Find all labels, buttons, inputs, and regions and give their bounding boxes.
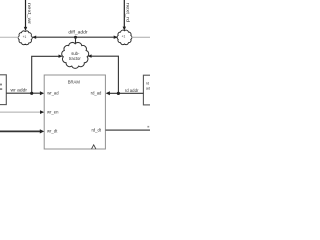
svg-text:BRAM: BRAM <box>68 80 81 85</box>
wire rd_dt output <box>105 126 150 130</box>
svg-text:rd: rd <box>146 81 149 85</box>
wire tap rd_addr to subtractor <box>87 54 118 93</box>
wire next_rd into right incrementer <box>123 0 131 31</box>
wire full flag stub left <box>0 36 19 38</box>
svg-text:wr_ad: wr_ad <box>47 91 59 96</box>
incrementer right +1 <box>117 30 132 45</box>
svg-text:ad: ad <box>146 86 150 90</box>
junction node on diff_addr <box>74 36 77 39</box>
svg-text:next_rd: next_rd <box>126 3 131 23</box>
svg-text:diff_addr: diff_addr <box>68 29 88 34</box>
svg-text:+1: +1 <box>122 35 126 39</box>
svg-text:wr_en: wr_en <box>47 109 59 114</box>
BRAM clock input triangle <box>92 145 96 149</box>
svg-text:tractor: tractor <box>69 56 81 61</box>
incrementer left +1 <box>18 31 32 45</box>
BRAM block <box>44 75 105 149</box>
wire empty flag stub right <box>131 36 150 38</box>
wire stem junction to subtractor <box>75 37 77 44</box>
register rd_addr (clipped at right edge) <box>143 75 155 105</box>
wire wr_en input <box>0 110 44 114</box>
wire rd_addr to BRAM <box>106 88 144 95</box>
svg-text:wr_dt: wr_dt <box>47 128 58 133</box>
wire tap wr_addr to subtractor <box>32 55 63 94</box>
svg-text:rd_ad: rd_ad <box>91 91 102 96</box>
subtractor cloud <box>62 42 89 68</box>
wire wr_addr to BRAM <box>6 87 44 95</box>
svg-text:rd addr: rd addr <box>125 88 139 93</box>
svg-text:+1: +1 <box>23 35 27 39</box>
svg-text:rd_dt: rd_dt <box>91 128 101 133</box>
wire diff_addr between incrementers <box>32 29 118 39</box>
junction node on rd_addr <box>117 92 120 95</box>
register wr_addr (clipped at left edge) <box>0 75 6 105</box>
wire next_wr into left incrementer <box>24 0 32 31</box>
junction node on wr_addr <box>30 92 33 95</box>
svg-text:wr addr: wr addr <box>11 87 28 92</box>
svg-text:next_wr: next_wr <box>27 3 32 25</box>
wire wr_dt input <box>0 129 44 133</box>
